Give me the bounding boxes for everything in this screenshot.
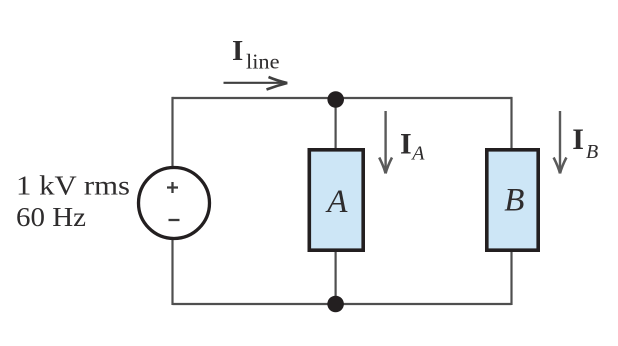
arrow I_line <box>224 77 288 90</box>
wire top horizontal <box>173 97 512 99</box>
wire branch A bottom <box>335 250 337 304</box>
arrow I_A <box>379 111 392 173</box>
load A <box>309 150 363 250</box>
wire branch A top <box>335 98 337 150</box>
current label I_B <box>572 123 598 163</box>
wire left rail upper <box>171 97 173 167</box>
svg-text:I: I <box>572 123 584 156</box>
wire left rail lower <box>171 239 173 305</box>
voltage source V1 <box>139 168 210 239</box>
svg-text:1 kV rms: 1 kV rms <box>16 171 130 201</box>
svg-text:A: A <box>410 142 425 164</box>
arrow I_B <box>554 111 567 173</box>
wire branch B top <box>510 97 512 150</box>
load B <box>487 150 538 250</box>
svg-text:I: I <box>400 128 412 161</box>
svg-text:B: B <box>586 141 598 163</box>
node bottom junction <box>327 296 344 313</box>
current label I_line <box>232 35 280 74</box>
node top junction <box>327 91 344 108</box>
value label: 1 kV rms / 60 Hz <box>16 171 130 233</box>
current label I_A <box>400 128 425 165</box>
svg-text:A: A <box>325 184 348 220</box>
svg-text:I: I <box>232 35 243 67</box>
wire branch B bottom <box>510 250 512 305</box>
svg-text:line: line <box>246 49 280 73</box>
svg-text:B: B <box>504 183 524 219</box>
wire bottom horizontal <box>173 303 512 305</box>
svg-text:60 Hz: 60 Hz <box>16 202 86 232</box>
